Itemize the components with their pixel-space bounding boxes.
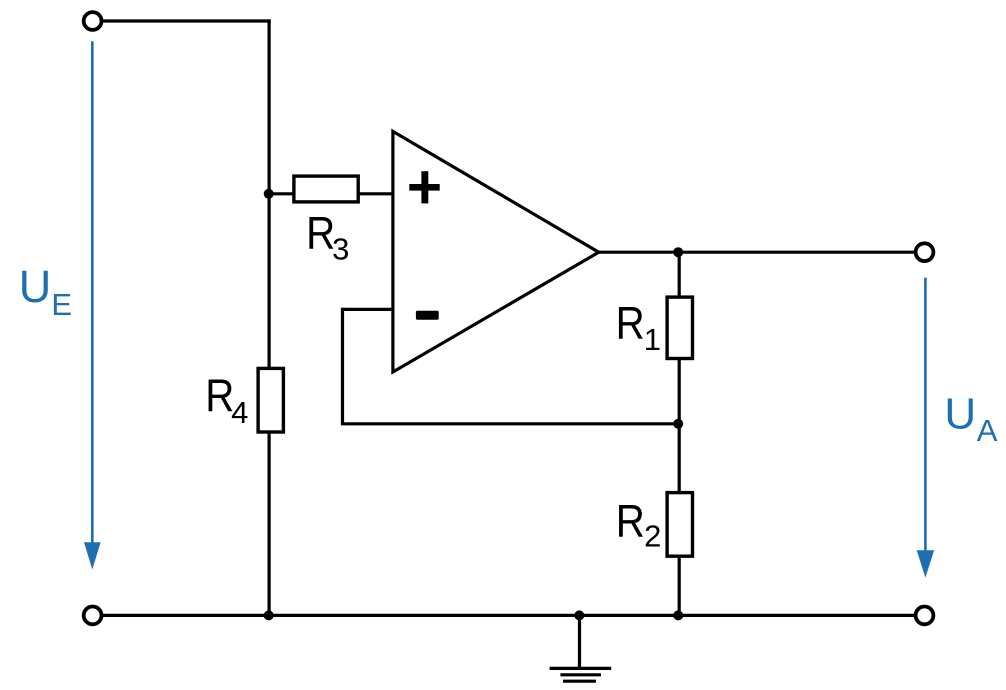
svg-text:R: R bbox=[616, 297, 645, 349]
resistor R4 body bbox=[258, 368, 283, 432]
wire top horizontal from input terminal to node bbox=[103, 19, 271, 22]
svg-text:R: R bbox=[616, 495, 645, 547]
wire R2 vertical leads bbox=[678, 424, 681, 493]
svg-text:R: R bbox=[205, 370, 234, 422]
wire feedback horizontal to node B bbox=[341, 422, 678, 425]
ground symbol bbox=[550, 615, 612, 681]
wire bottom horizontal rail bbox=[103, 614, 916, 617]
svg-text:3: 3 bbox=[332, 232, 349, 267]
resistor R1 body bbox=[667, 297, 692, 358]
svg-text:E: E bbox=[51, 287, 72, 322]
svg-text:A: A bbox=[977, 413, 998, 448]
resistor R2 body bbox=[667, 493, 692, 557]
svg-text:U: U bbox=[944, 389, 976, 438]
wire feedback vertical bbox=[341, 308, 344, 424]
wire from node to R3 left lead bbox=[269, 192, 294, 195]
svg-text:U: U bbox=[19, 261, 52, 312]
op-amp - input marker bbox=[416, 311, 439, 320]
node output junction dot bbox=[673, 247, 683, 257]
node B junction dot (feedback tap) bbox=[673, 419, 683, 429]
node junction dot (left rail to bottom rail) bbox=[264, 610, 274, 620]
svg-text:1: 1 bbox=[644, 322, 661, 357]
wire op-amp - input horizontal bbox=[343, 308, 393, 311]
svg-text:4: 4 bbox=[231, 395, 248, 430]
node junction dot (ground tap) bbox=[574, 610, 584, 620]
resistor R3 body bbox=[294, 176, 358, 202]
node junction dot (R2 to bottom rail) bbox=[673, 610, 683, 620]
op-amp + input marker bbox=[409, 171, 439, 203]
wire R1 vertical leads bbox=[678, 252, 681, 297]
node A junction dot (R3 tap on left rail) bbox=[264, 189, 274, 199]
svg-text:R: R bbox=[306, 207, 335, 259]
svg-text:2: 2 bbox=[644, 519, 661, 554]
op-amp U1 triangle bbox=[393, 131, 599, 372]
voltage arrow U_E (blue, downward) bbox=[84, 41, 101, 569]
wire left vertical rail x=269 bbox=[268, 19, 271, 615]
wire op-amp output to output terminal bbox=[597, 251, 916, 254]
terminal input top-left bbox=[84, 12, 102, 30]
terminal output bottom-right bbox=[916, 607, 934, 625]
terminal input bottom-left bbox=[84, 607, 102, 625]
terminal output top-right bbox=[916, 243, 934, 261]
wire R3 right lead to op-amp + input bbox=[358, 192, 393, 195]
voltage arrow U_A (blue, downward) bbox=[917, 278, 934, 578]
